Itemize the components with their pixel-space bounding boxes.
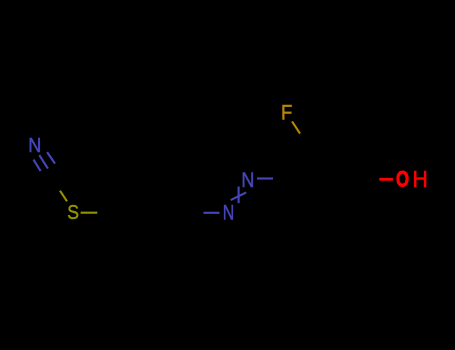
svg-text:O: O [396, 167, 409, 192]
bond N-C(ring2) (azo nitrogen half) [257, 177, 273, 179]
svg-text:N: N [28, 134, 41, 157]
bond C-S (sulfur half) [60, 191, 67, 202]
svg-text:S: S [67, 202, 79, 225]
bond C(ring1)-N (azo nitrogen half) [204, 212, 220, 214]
svg-text:H: H [412, 166, 427, 192]
azo crossed double bond N=N line B [238, 187, 240, 204]
triple bond N#C line 2 [39, 155, 48, 169]
bond S-C(ring1) (sulfur half) [81, 212, 98, 214]
svg-text:F: F [281, 101, 292, 124]
svg-text:N: N [241, 169, 254, 193]
triple bond N#C line 3 [47, 152, 55, 164]
bond F-C(ring2) (fluorine half) [292, 121, 300, 133]
triple bond N#C line 1 [34, 160, 41, 172]
azo crossed double bond N=N line A [231, 192, 247, 200]
bond C(ring2)-O (oxygen half) [379, 178, 393, 181]
svg-text:N: N [223, 201, 234, 225]
